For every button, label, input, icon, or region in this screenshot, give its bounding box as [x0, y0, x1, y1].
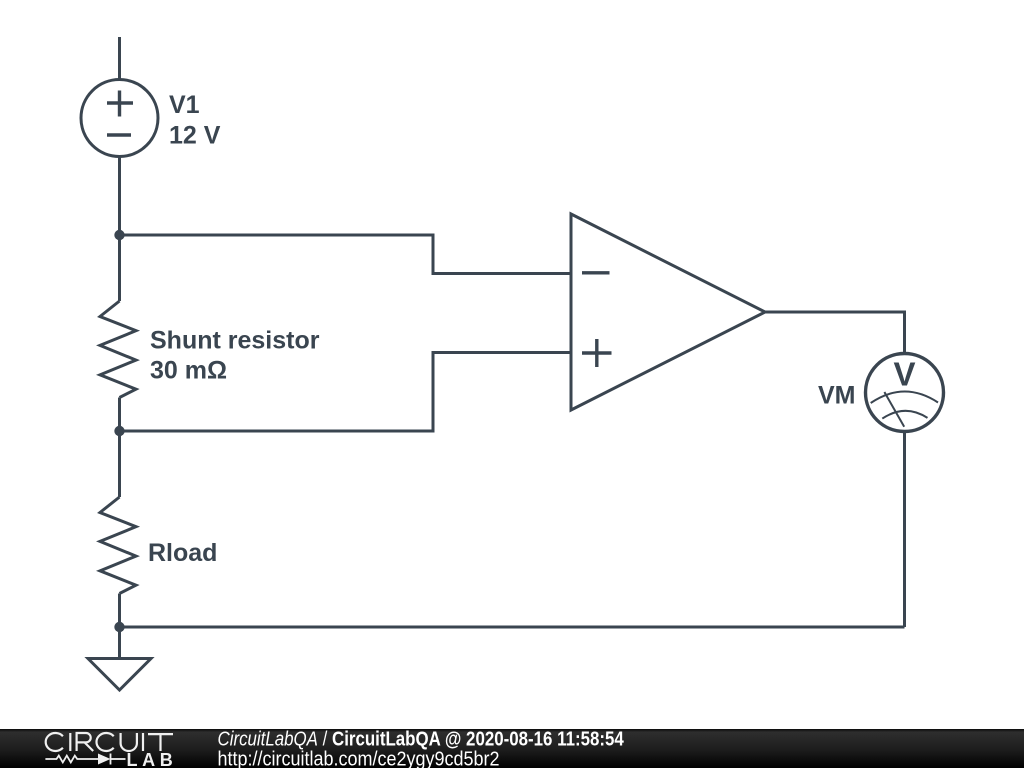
resistor Rload [100, 497, 136, 594]
logo circuit squiggle with diode [45, 754, 125, 765]
wire shunt bottom to node B [118, 398, 121, 432]
wire node C to ground [118, 627, 121, 658]
voltage source V1 [81, 80, 158, 157]
wire node A down to shunt resistor [118, 235, 121, 301]
wire node A to op-amp minus input [120, 235, 572, 274]
wire Rload bottom to node C [118, 594, 121, 628]
wire bottom return to node C [120, 626, 905, 629]
svg-text:30 mΩ: 30 mΩ [150, 357, 227, 385]
ground [88, 659, 151, 691]
footer bar [0, 729, 1024, 768]
resistor Shunt (R1) [100, 301, 136, 398]
wire op-amp output to voltmeter [765, 312, 905, 353]
node A junction dot [114, 230, 124, 240]
op-amp plus pin label [582, 339, 612, 367]
svg-text:12 V: 12 V [169, 122, 221, 150]
wire V1 bottom to node A [118, 158, 121, 236]
svg-text:http://circuitlab.com/ce2ygy9c: http://circuitlab.com/ce2ygy9cd5br2 [218, 749, 500, 768]
logo diode triangle [98, 754, 111, 765]
logo CIRCUIT wordmark [46, 733, 173, 751]
wire top stub above V1 [118, 37, 121, 79]
wire voltmeter bottom down [903, 431, 906, 627]
voltmeter VM [866, 354, 944, 432]
wire node B down to Rload [118, 431, 121, 497]
svg-text:CircuitLabQA / CircuitLabQA @: CircuitLabQA / CircuitLabQA @ 2020-08-16… [218, 727, 625, 750]
svg-text:Rload: Rload [148, 539, 217, 567]
wire node B to op-amp plus input [120, 353, 572, 432]
node B junction dot [114, 426, 124, 436]
svg-text:Shunt resistor: Shunt resistor [150, 326, 320, 354]
svg-text:VM: VM [818, 382, 856, 410]
svg-text:LAB: LAB [127, 750, 178, 768]
op-amp U1 [571, 214, 765, 410]
svg-text:V: V [893, 356, 915, 393]
svg-text:V1: V1 [169, 91, 200, 119]
op-amp minus pin label [582, 271, 610, 274]
node C junction dot [114, 622, 124, 632]
